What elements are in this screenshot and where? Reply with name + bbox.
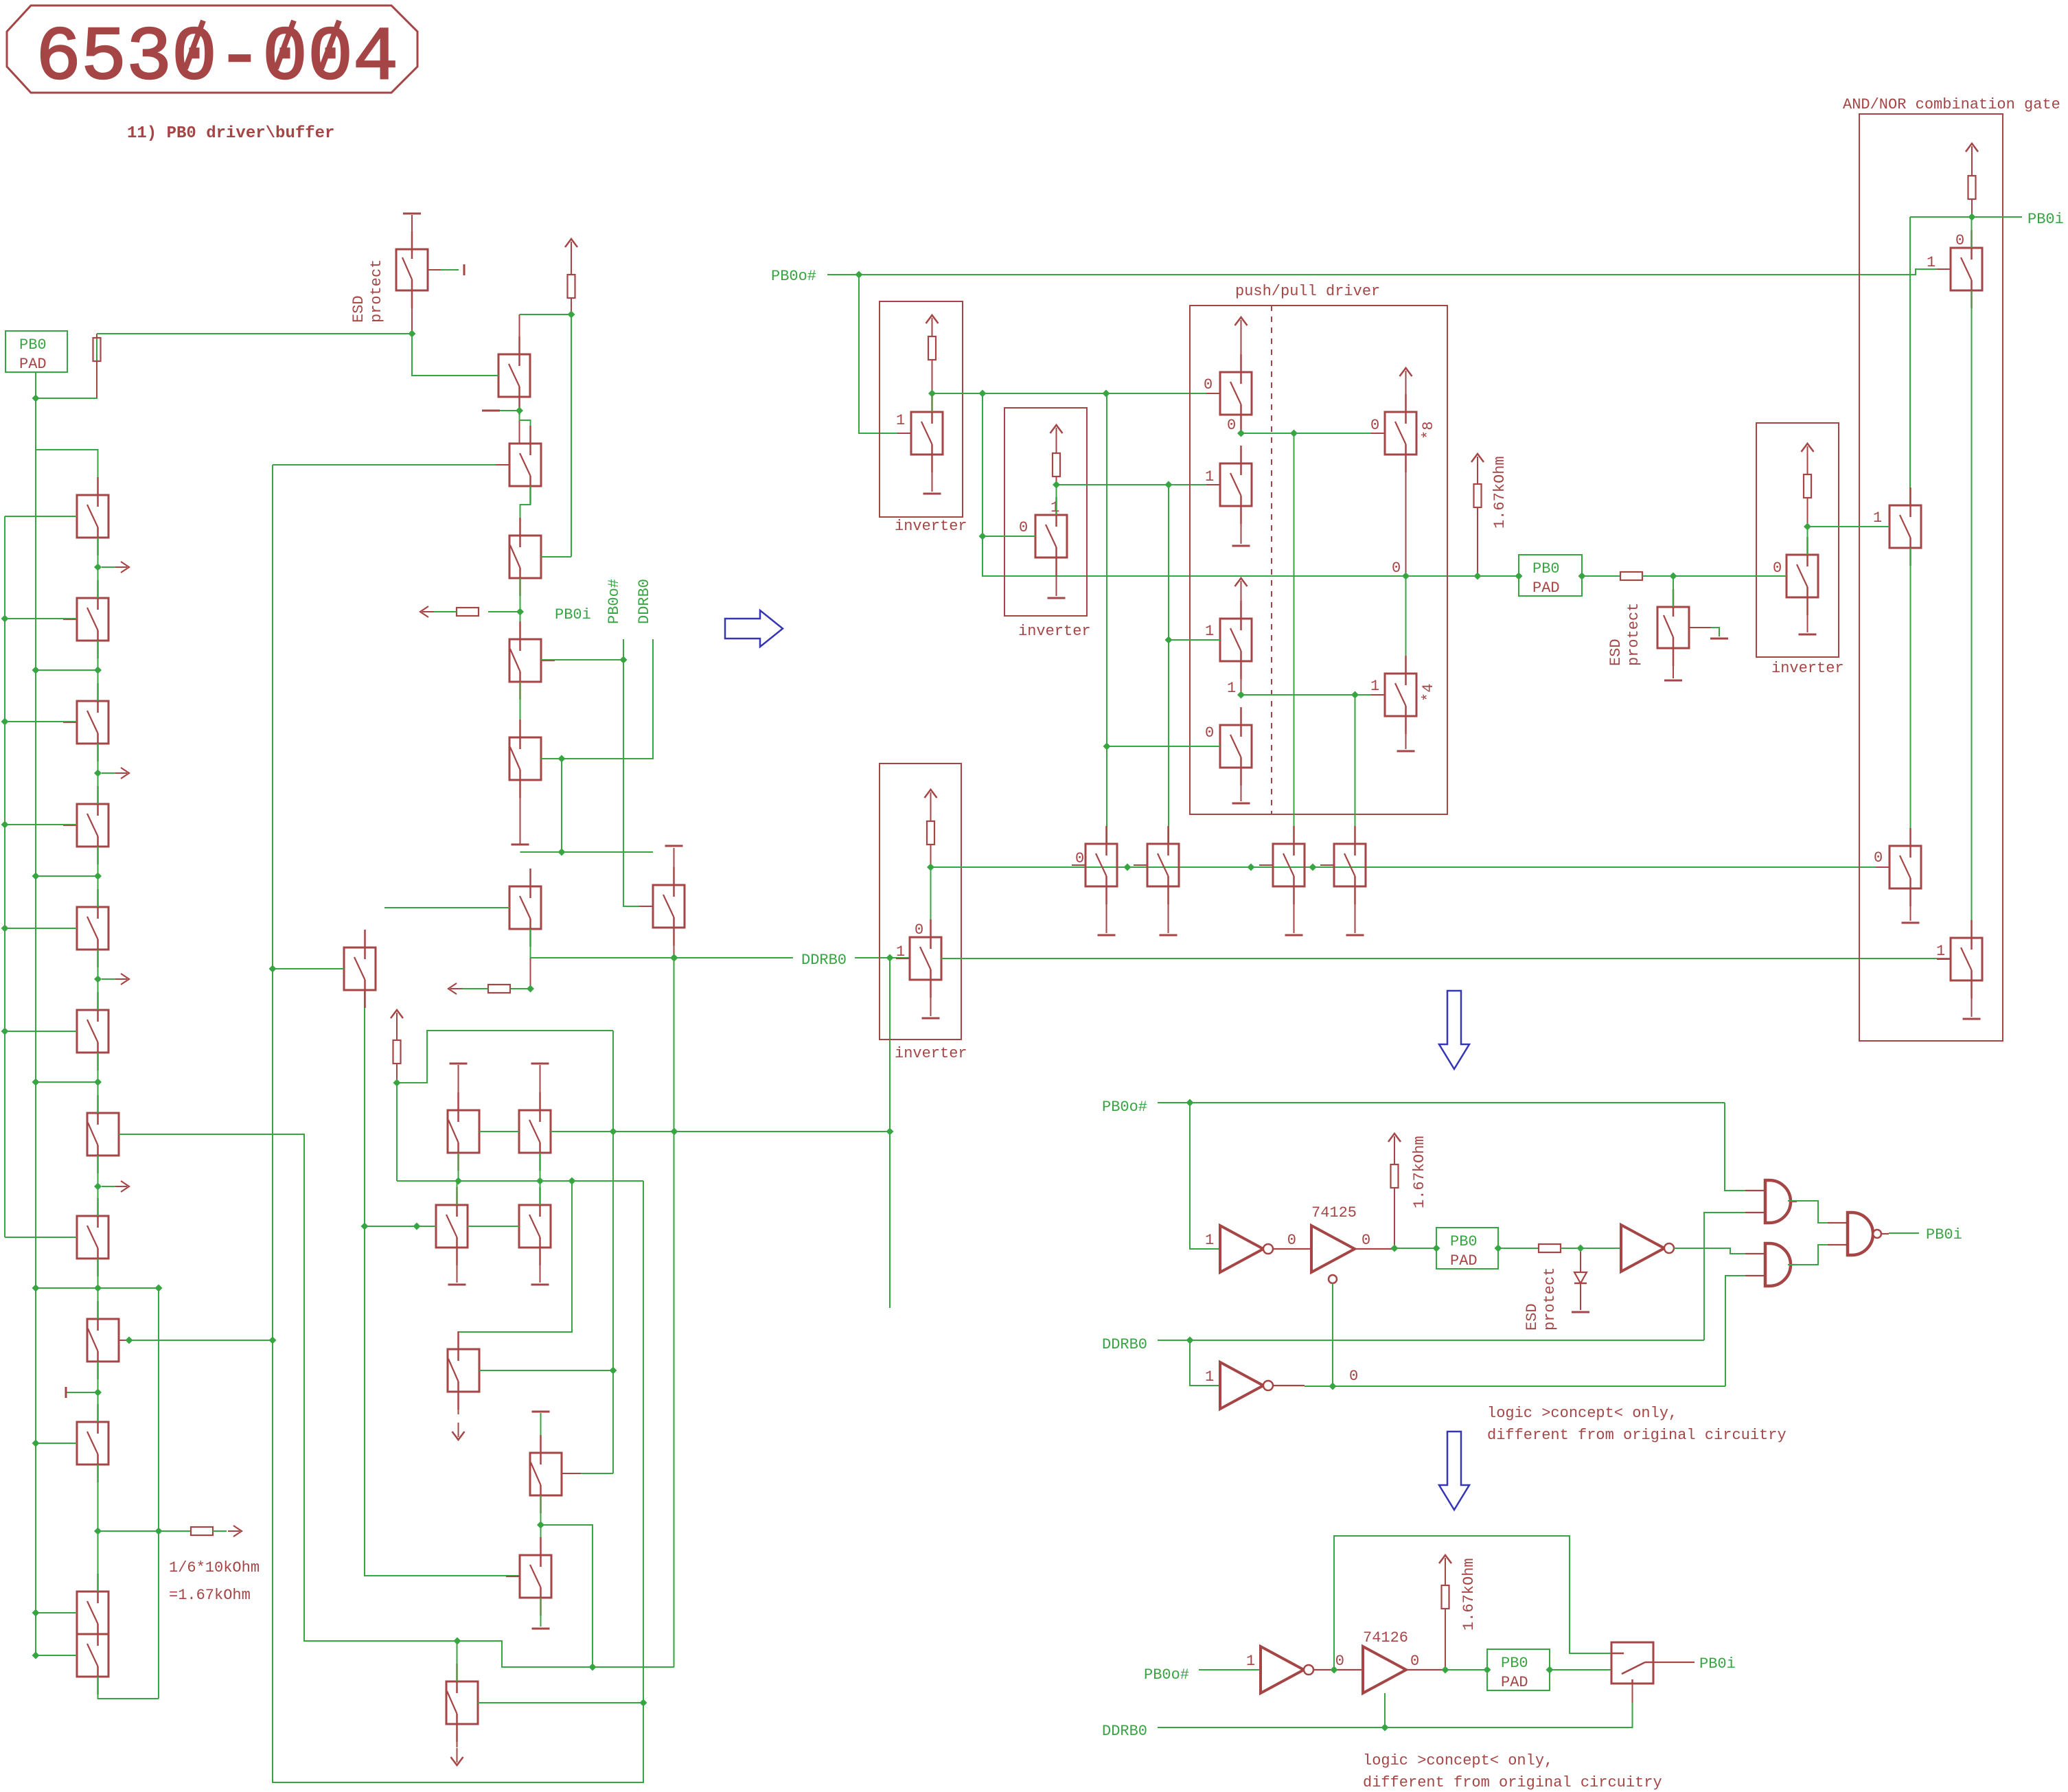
svg-text:74125: 74125 [1311,1204,1357,1221]
svg-text:PB0: PB0 [19,336,47,354]
svg-text:inverter: inverter [895,518,967,535]
svg-text:PB0i: PB0i [555,606,591,623]
svg-text:logic >concept< only,: logic >concept< only, [1363,1752,1553,1769]
svg-text:74126: 74126 [1363,1629,1408,1646]
svg-text:1: 1 [1370,678,1379,695]
svg-text:0: 0 [1335,1653,1344,1670]
svg-text:inverter: inverter [1771,660,1844,677]
svg-text:1.67kOhm: 1.67kOhm [1491,456,1508,529]
svg-text:PB0: PB0 [1501,1655,1528,1672]
svg-text:PAD: PAD [1501,1674,1528,1691]
svg-text:1: 1 [1227,680,1236,697]
svg-text:0: 0 [1955,232,1964,249]
svg-text:0: 0 [1204,376,1213,393]
svg-text:protect: protect [368,260,385,323]
svg-text:1: 1 [1050,499,1059,516]
svg-text:0: 0 [1362,1232,1370,1249]
svg-text:DDRB0: DDRB0 [1102,1336,1147,1353]
svg-text:inverter: inverter [1018,623,1091,640]
svg-text:1: 1 [1205,468,1214,485]
svg-text:logic >concept< only,: logic >concept< only, [1487,1405,1677,1422]
svg-text:ESD: ESD [350,295,367,323]
svg-text:PB0: PB0 [1450,1233,1478,1250]
svg-text:=1.67kOhm: =1.67kOhm [169,1587,251,1604]
svg-text:1: 1 [1205,623,1214,640]
svg-text:ESD: ESD [1607,639,1624,666]
svg-text:6530-004: 6530-004 [36,16,398,102]
svg-text:1: 1 [1936,943,1945,960]
svg-text:0: 0 [1205,724,1214,742]
svg-text:0: 0 [1227,417,1236,434]
svg-text:inverter: inverter [895,1045,967,1062]
svg-text:0: 0 [1773,560,1782,577]
svg-text:1: 1 [896,412,905,429]
svg-text:*4: *4 [1420,684,1437,702]
svg-text:PB0: PB0 [1532,560,1560,577]
svg-text:PB0o#: PB0o# [1102,1099,1147,1116]
svg-text:AND/NOR combination gate: AND/NOR combination gate [1843,96,2060,113]
svg-text:protect: protect [1625,603,1642,666]
svg-text:PB0i: PB0i [1699,1655,1736,1673]
svg-text:different from original circui: different from original circuitry [1487,1427,1786,1444]
svg-text:1: 1 [1927,254,1935,271]
svg-text:PAD: PAD [1450,1252,1478,1270]
svg-text:1.67kOhm: 1.67kOhm [1411,1136,1428,1208]
svg-text:1: 1 [1205,1368,1214,1386]
svg-text:PAD: PAD [19,356,47,373]
svg-text:1: 1 [1873,509,1882,527]
svg-text:push/pull driver: push/pull driver [1235,283,1380,300]
svg-text:different from original circui: different from original circuitry [1363,1774,1662,1791]
svg-text:0: 0 [1410,1653,1419,1670]
svg-text:PB0o#: PB0o# [1144,1666,1189,1684]
svg-text:protect: protect [1541,1267,1559,1331]
svg-text:0: 0 [1392,560,1401,577]
svg-text:DDRB0: DDRB0 [801,952,847,969]
svg-text:1.67kOhm: 1.67kOhm [1460,1558,1478,1631]
svg-text:DDRB0: DDRB0 [1102,1723,1147,1740]
svg-text:PB0i: PB0i [1926,1226,1962,1243]
svg-text:0: 0 [1370,417,1379,434]
svg-text:0: 0 [1349,1368,1358,1385]
svg-text:0: 0 [1287,1232,1296,1249]
svg-text:PB0o#: PB0o# [771,268,816,285]
svg-text:11) PB0 driver\buffer: 11) PB0 driver\buffer [127,124,334,143]
svg-text:PB0i: PB0i [2027,211,2064,228]
svg-text:1/6*10kOhm: 1/6*10kOhm [169,1559,260,1576]
svg-text:*8: *8 [1420,422,1437,439]
svg-text:PB0o#: PB0o# [606,579,623,624]
svg-text:0: 0 [1874,849,1883,866]
svg-text:DDRB0: DDRB0 [636,579,653,624]
svg-text:0: 0 [1019,519,1028,536]
svg-text:0: 0 [915,921,923,939]
svg-text:1: 1 [1205,1232,1214,1249]
svg-text:PAD: PAD [1532,579,1560,597]
svg-text:ESD: ESD [1524,1303,1541,1331]
svg-text:1: 1 [1246,1653,1255,1670]
